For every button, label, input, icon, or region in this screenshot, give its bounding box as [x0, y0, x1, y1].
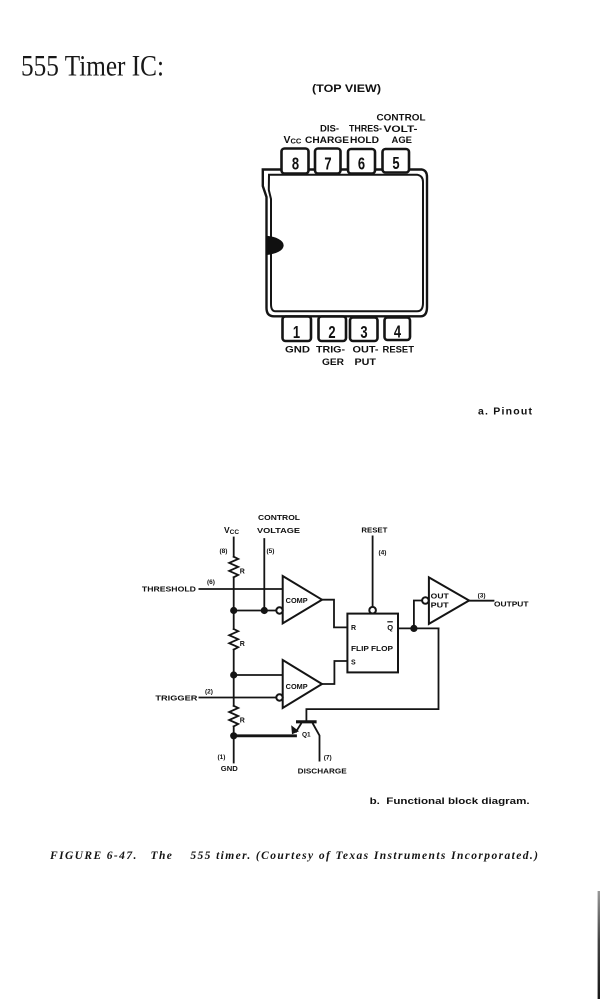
resistor R2	[229, 629, 238, 650]
svg-text:R: R	[240, 641, 245, 648]
pin-1 index mark	[267, 237, 283, 254]
wire R2 to node D and trigger column	[233, 650, 235, 706]
net Vcc wire	[233, 538, 235, 557]
wire R1 to node A	[233, 577, 235, 610]
resistor R1	[229, 557, 238, 578]
svg-text:CONTROL: CONTROL	[258, 513, 300, 522]
node D junction	[230, 671, 237, 678]
svg-text:(3): (3)	[478, 593, 486, 600]
flip-flop U4	[347, 607, 398, 672]
resistor R3	[229, 706, 238, 727]
wire THRESHOLD	[199, 588, 282, 590]
pin 4	[385, 318, 411, 341]
svg-text:VOLTAGE: VOLTAGE	[257, 526, 300, 535]
transistor Q1	[296, 722, 320, 762]
svg-text:VCC: VCC	[224, 525, 239, 536]
svg-text:THRESHOLD: THRESHOLD	[142, 586, 196, 593]
wire node A to R2	[233, 611, 235, 630]
svg-text:FIGURE 6-47. The 555 time: FIGURE 6-47. The 555 timer. (Courtesy of…	[49, 850, 538, 862]
pin 1	[283, 317, 312, 342]
svg-text:DISCHARGE: DISCHARGE	[298, 768, 347, 775]
node E junction	[230, 732, 237, 739]
node B junction	[261, 607, 268, 614]
output buffer U3	[422, 577, 469, 624]
pin 8	[282, 149, 309, 174]
svg-text:(6): (6)	[207, 579, 215, 586]
IC package U1 body	[263, 170, 427, 317]
node C junction	[410, 625, 417, 632]
pin 7	[315, 149, 341, 174]
svg-text:(8): (8)	[220, 548, 228, 555]
svg-text:FLIP FLOP: FLIP FLOP	[351, 646, 393, 653]
wire TRIGGER	[199, 697, 276, 699]
comparator U2	[276, 660, 322, 708]
svg-text:RESET: RESET	[361, 525, 387, 534]
svg-text:(2): (2)	[205, 689, 213, 696]
svg-text:R: R	[351, 625, 356, 632]
wire node E to Q1 emitter	[234, 734, 296, 737]
svg-text:S: S	[351, 660, 356, 667]
wire OUTPUT	[469, 600, 493, 602]
svg-text:R: R	[240, 568, 245, 575]
node A junction	[230, 607, 237, 614]
wire node C to buffer U3 input	[414, 601, 422, 629]
wire node A to comparator U1	[234, 610, 277, 612]
wire CONTROL VOLTAGE	[263, 539, 265, 611]
pin 3	[350, 318, 378, 342]
svg-text:PUT: PUT	[431, 603, 450, 610]
wire R3 to node E	[233, 726, 235, 735]
wire RESET	[372, 536, 374, 606]
wire comparator U1 output to flip-flop R	[322, 600, 347, 628]
svg-text:b. Functional block diagram.: b. Functional block diagram.	[370, 796, 530, 807]
wire node E to GND pin	[233, 736, 235, 763]
svg-text:OUTPUT: OUTPUT	[494, 600, 529, 609]
svg-text:R: R	[240, 718, 245, 725]
svg-text:GND: GND	[221, 766, 238, 773]
comparator U1	[276, 576, 322, 623]
svg-text:(1): (1)	[218, 754, 226, 761]
svg-text:Q: Q	[387, 623, 393, 632]
wire feedback node C to Q1 base	[306, 628, 438, 720]
svg-text:TRIGGER: TRIGGER	[155, 695, 197, 702]
svg-text:(4): (4)	[379, 550, 387, 557]
svg-text:Q1: Q1	[302, 732, 311, 739]
pin 5	[383, 149, 410, 173]
pin 2	[319, 317, 347, 342]
wire flip-flop Qbar to node C	[398, 627, 439, 629]
svg-text:OUT: OUT	[431, 594, 450, 601]
svg-text:COMP: COMP	[286, 598, 308, 605]
wire comparator U2 output to flip-flop S	[322, 661, 347, 684]
svg-text:(7): (7)	[324, 754, 332, 761]
svg-text:COMP: COMP	[286, 684, 308, 691]
wire node D to comparator U2	[234, 674, 283, 676]
svg-text:(5): (5)	[267, 548, 275, 555]
pin 6	[348, 149, 375, 174]
